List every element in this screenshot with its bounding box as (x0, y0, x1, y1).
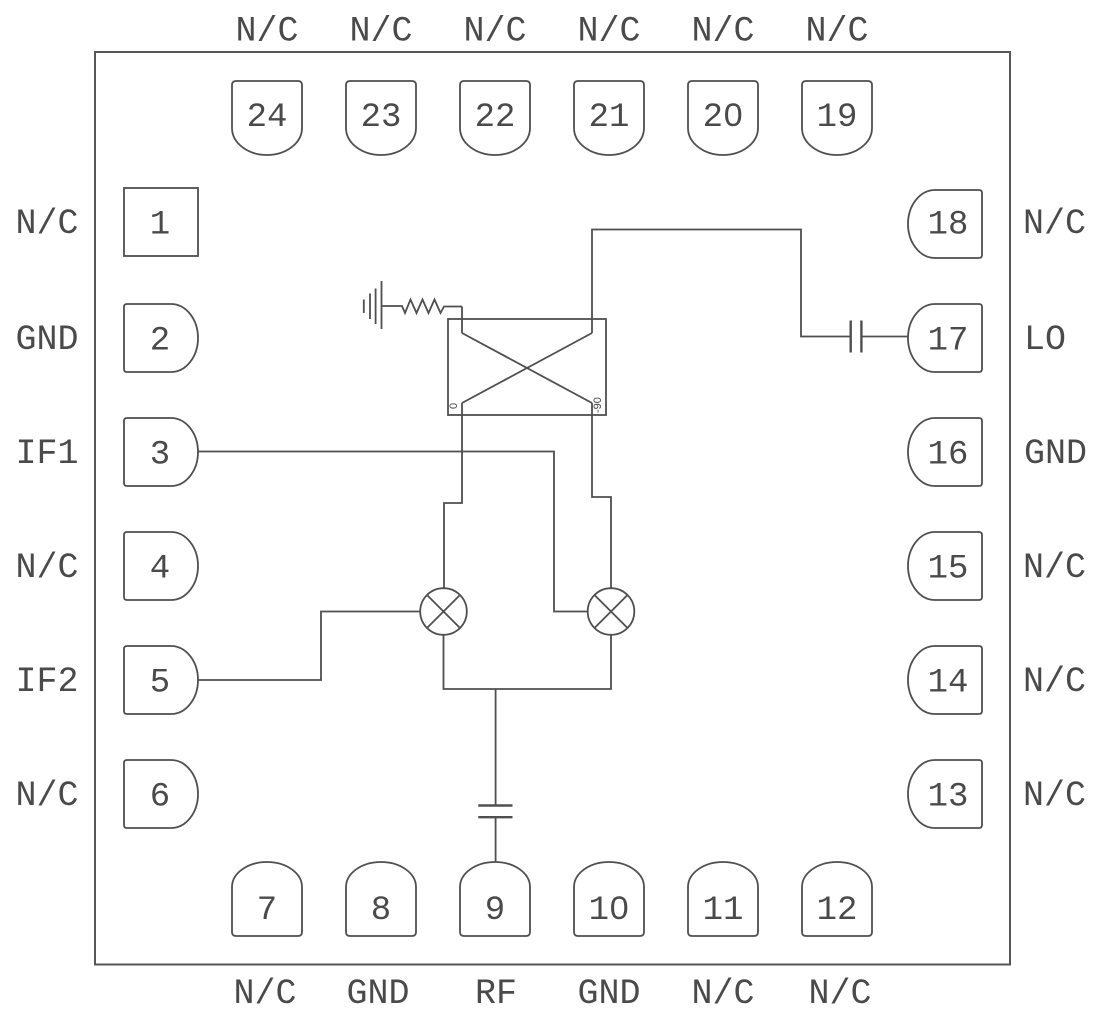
svg-text:9: 9 (485, 892, 505, 930)
svg-text:2: 2 (150, 323, 170, 361)
wire hybrid 0 output to left mixer (444, 403, 462, 589)
svg-text:22: 22 (475, 99, 516, 137)
svg-text:5: 5 (150, 665, 170, 703)
hybrid diagonal 90-port (462, 333, 592, 403)
wire RF node down to capacitor (495, 689, 497, 806)
wire C1 to pin 17 (861, 336, 908, 338)
wire C2 to pin 9 (495, 817, 497, 862)
wire IF2 pin5 to left mixer (198, 612, 420, 681)
svg-text:6: 6 (150, 779, 170, 817)
pin 6 (124, 760, 198, 828)
wire hybrid -90 output to right mixer (592, 403, 611, 589)
svg-text:8: 8 (371, 892, 391, 930)
svg-text:N/C: N/C (805, 12, 868, 52)
pin 7 (232, 862, 302, 936)
svg-text:24: 24 (247, 99, 288, 137)
svg-text:N/C: N/C (577, 12, 640, 52)
svg-text:N/C: N/C (463, 12, 526, 52)
svg-text:19: 19 (817, 99, 858, 137)
pin 21 (574, 81, 644, 155)
quadrature hybrid U1 box (448, 319, 606, 415)
wire mixers to RF combine node (444, 635, 612, 689)
svg-text:GND: GND (15, 320, 78, 360)
svg-text:23: 23 (361, 99, 402, 137)
pin 16 (908, 418, 982, 486)
svg-text:N/C: N/C (349, 12, 412, 52)
svg-text:15: 15 (928, 551, 969, 589)
pin 24 (232, 81, 302, 155)
hybrid diagonal 0-port (462, 333, 592, 403)
svg-text:IF1: IF1 (15, 434, 78, 474)
svg-text:N/C: N/C (691, 12, 754, 52)
svg-text:14: 14 (928, 665, 969, 703)
wire hybrid LO port up and over to pin 17 (592, 230, 851, 337)
svg-text:4: 4 (150, 551, 170, 589)
pin 5 (124, 646, 198, 714)
pin 13 (908, 760, 982, 828)
mixer M1 (left) (420, 588, 467, 635)
pin 23 (346, 81, 416, 155)
zero dot masks (730, 107, 738, 119)
svg-text:N/C: N/C (1023, 548, 1086, 588)
svg-text:-90: -90 (592, 397, 604, 413)
pin 14 (908, 646, 982, 714)
svg-text:N/C: N/C (15, 548, 78, 588)
wire IF1 pin3 to right mixer (198, 452, 588, 612)
svg-text:N/C: N/C (1023, 662, 1086, 702)
svg-text:N/C: N/C (1023, 204, 1086, 244)
svg-text:13: 13 (928, 779, 969, 817)
pin 15 (908, 532, 982, 600)
svg-text:7: 7 (257, 892, 277, 930)
svg-text:3: 3 (150, 437, 170, 475)
ground (364, 281, 382, 329)
svg-text:16: 16 (928, 437, 969, 475)
svg-text:18: 18 (928, 207, 969, 245)
svg-text:GND: GND (577, 974, 640, 1014)
pin 17 (908, 304, 982, 372)
svg-text:N/C: N/C (235, 12, 298, 52)
svg-text:IF2: IF2 (15, 662, 78, 702)
pin 19 (802, 81, 872, 155)
svg-text:N/C: N/C (691, 974, 754, 1014)
pin 20 (688, 81, 758, 155)
svg-text:GND: GND (1024, 434, 1087, 474)
pin 10 (574, 862, 644, 936)
pin 4 (124, 532, 198, 600)
capacitor C1 (LO) (851, 321, 862, 353)
pin 12 (802, 862, 872, 936)
pin 11 (688, 862, 758, 936)
pin 9 (460, 862, 530, 936)
svg-text:GND: GND (346, 974, 409, 1014)
pin 3 (124, 418, 198, 486)
svg-text:N/C: N/C (808, 974, 871, 1014)
svg-text:0: 0 (448, 403, 460, 409)
svg-text:N/C: N/C (1023, 776, 1086, 816)
svg-text:N/C: N/C (15, 776, 78, 816)
pin 18 (908, 190, 982, 258)
svg-text:20: 20 (703, 99, 744, 137)
pin 2 (124, 304, 198, 372)
mixer M2 (right) (588, 588, 635, 635)
svg-text:10: 10 (589, 892, 630, 930)
svg-text:11: 11 (703, 892, 744, 930)
svg-text:17: 17 (928, 323, 969, 361)
svg-text:N/C: N/C (233, 974, 296, 1014)
pin 22 (460, 81, 530, 155)
svg-text:1: 1 (150, 207, 170, 245)
svg-text:RF: RF (475, 974, 517, 1014)
svg-text:12: 12 (817, 892, 858, 930)
capacitor C2 (RF) (478, 806, 512, 818)
wire resistor to hybrid 0-input (461, 307, 463, 334)
resistor R1 (382, 300, 463, 314)
svg-text:N/C: N/C (15, 204, 78, 244)
svg-text:21: 21 (589, 99, 630, 137)
chip outline (95, 52, 1010, 965)
pin 1 (124, 188, 198, 256)
svg-text:LO: LO (1024, 320, 1066, 360)
pin 8 (346, 862, 416, 936)
